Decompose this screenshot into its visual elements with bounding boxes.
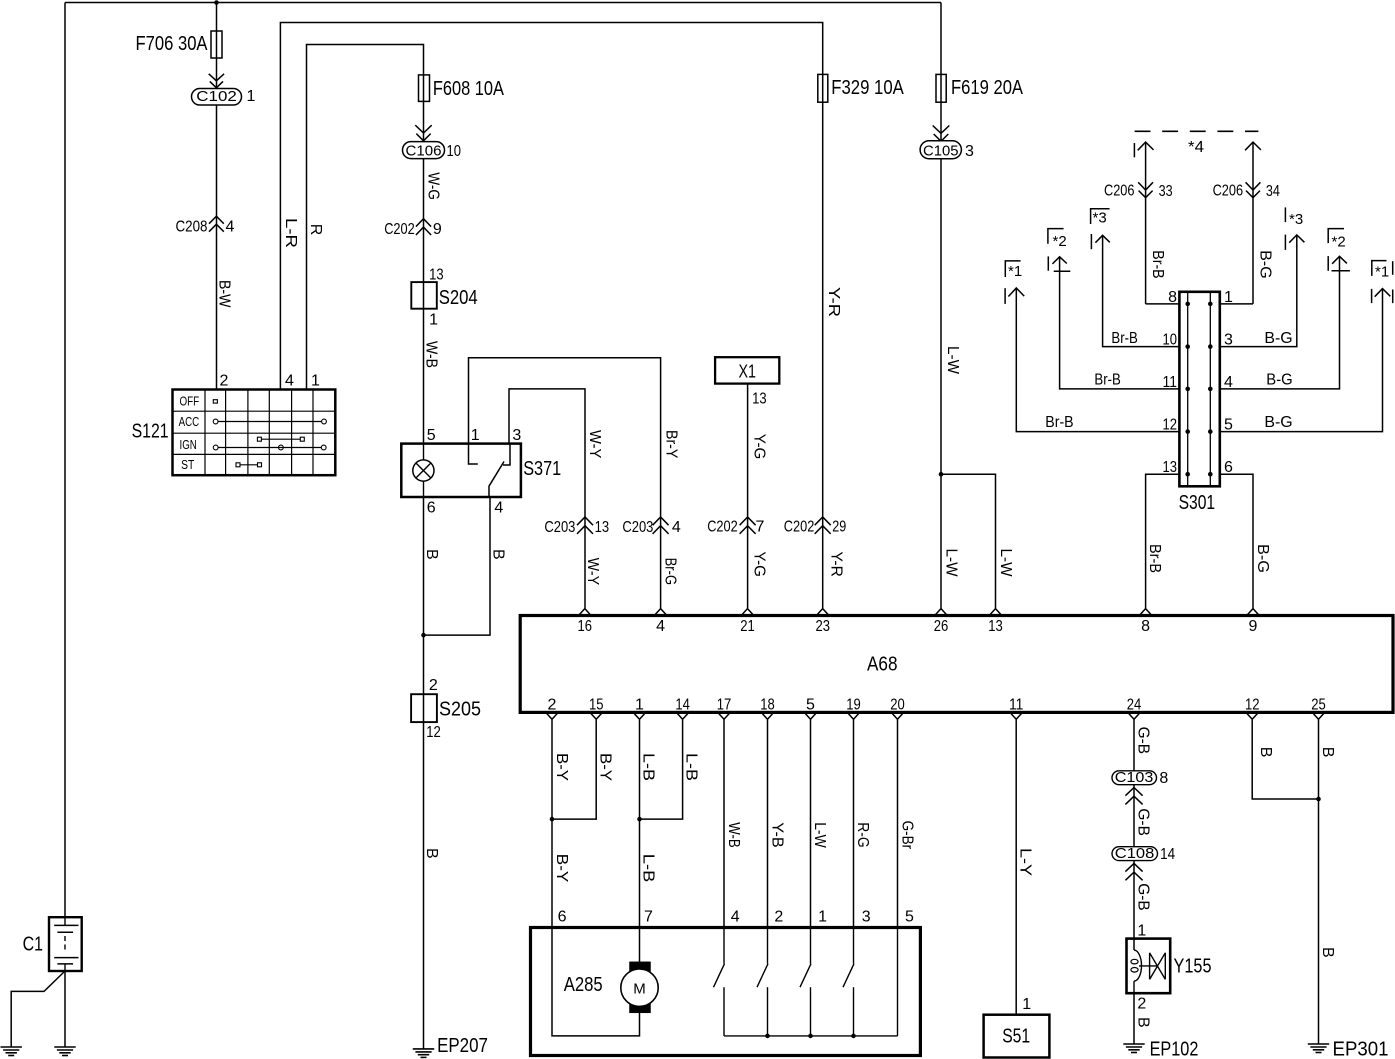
- svg-text:4: 4: [285, 373, 294, 390]
- svg-text:Br-G: Br-G: [661, 558, 678, 586]
- svg-text:C206: C206: [1104, 183, 1135, 200]
- svg-text:B-G: B-G: [1264, 414, 1292, 431]
- svg-text:13: 13: [1163, 459, 1178, 476]
- svg-text:A285: A285: [564, 974, 603, 996]
- svg-text:10: 10: [1163, 332, 1178, 349]
- svg-text:1: 1: [1224, 289, 1233, 306]
- svg-text:*2: *2: [1332, 234, 1346, 251]
- svg-text:B-G: B-G: [1266, 371, 1292, 388]
- svg-text:9: 9: [1249, 618, 1258, 635]
- svg-text:2: 2: [1137, 996, 1146, 1013]
- svg-text:4: 4: [1224, 374, 1233, 391]
- svg-text:1: 1: [311, 373, 320, 390]
- svg-text:G-B: G-B: [1135, 883, 1152, 911]
- svg-text:W-G: W-G: [425, 172, 442, 200]
- svg-text:*1: *1: [1008, 263, 1022, 280]
- svg-text:Br-B: Br-B: [1149, 250, 1166, 278]
- svg-text:B: B: [423, 848, 440, 859]
- svg-text:4: 4: [226, 219, 235, 236]
- svg-text:B-W: B-W: [216, 280, 233, 308]
- svg-text:11: 11: [1163, 374, 1178, 391]
- svg-text:C203: C203: [622, 519, 653, 536]
- svg-text:15: 15: [589, 697, 604, 714]
- svg-text:Br-B: Br-B: [1146, 544, 1163, 573]
- svg-text:L-W: L-W: [943, 549, 960, 578]
- svg-text:16: 16: [578, 618, 593, 635]
- svg-text:4: 4: [672, 519, 681, 536]
- svg-text:1: 1: [635, 697, 644, 714]
- svg-text:34: 34: [1266, 183, 1280, 200]
- svg-text:S121: S121: [132, 421, 169, 443]
- svg-text:B: B: [1257, 747, 1274, 758]
- svg-text:OFF: OFF: [180, 394, 200, 408]
- svg-text:Br-Y: Br-Y: [662, 430, 679, 459]
- svg-text:C208: C208: [176, 219, 208, 236]
- svg-text:26: 26: [934, 618, 949, 635]
- svg-text:F619 20A: F619 20A: [951, 77, 1024, 99]
- svg-text:13: 13: [595, 519, 610, 536]
- svg-text:EP207: EP207: [437, 1035, 488, 1057]
- svg-text:7: 7: [756, 519, 765, 536]
- svg-text:7: 7: [644, 909, 653, 926]
- svg-text:*3: *3: [1289, 211, 1303, 228]
- svg-text:X1: X1: [738, 361, 756, 381]
- svg-text:25: 25: [1311, 697, 1326, 714]
- svg-text:C102: C102: [196, 88, 237, 105]
- svg-text:B: B: [423, 549, 440, 560]
- svg-text:23: 23: [815, 618, 830, 635]
- svg-text:C203: C203: [544, 519, 575, 536]
- svg-text:L-R: L-R: [282, 218, 299, 248]
- svg-text:3: 3: [1224, 332, 1233, 349]
- svg-text:19: 19: [846, 697, 861, 714]
- svg-text:C103: C103: [1115, 769, 1154, 786]
- svg-text:S301: S301: [1179, 492, 1216, 514]
- svg-text:B-G: B-G: [1264, 330, 1292, 347]
- svg-text:B-G: B-G: [1257, 250, 1274, 278]
- svg-text:C202: C202: [784, 519, 815, 536]
- svg-text:17: 17: [717, 697, 732, 714]
- svg-text:8: 8: [1141, 618, 1150, 635]
- svg-text:L-W: L-W: [811, 822, 828, 848]
- svg-text:W-Y: W-Y: [584, 558, 601, 586]
- svg-text:B-Y: B-Y: [597, 753, 614, 781]
- svg-text:M: M: [633, 981, 646, 998]
- svg-text:14: 14: [675, 697, 690, 714]
- svg-text:IGN: IGN: [180, 438, 197, 452]
- svg-text:C206: C206: [1213, 183, 1244, 200]
- svg-text:*2: *2: [1053, 233, 1067, 250]
- svg-text:S204: S204: [439, 287, 478, 309]
- svg-text:C202: C202: [384, 221, 415, 238]
- svg-text:EP301: EP301: [1333, 1039, 1389, 1059]
- svg-text:ACC: ACC: [179, 415, 200, 429]
- svg-text:12: 12: [1245, 697, 1260, 714]
- svg-text:Y-G: Y-G: [751, 434, 768, 460]
- svg-text:*3: *3: [1093, 210, 1107, 227]
- svg-text:C105: C105: [923, 143, 959, 160]
- svg-text:G-B: G-B: [1135, 727, 1152, 755]
- svg-text:B: B: [489, 549, 506, 560]
- svg-text:R: R: [307, 224, 324, 236]
- svg-text:4: 4: [656, 618, 665, 635]
- svg-text:5: 5: [1224, 417, 1233, 434]
- svg-text:1: 1: [818, 909, 827, 926]
- svg-text:20: 20: [890, 697, 905, 714]
- svg-text:L-W: L-W: [997, 549, 1014, 578]
- svg-text:5: 5: [427, 427, 436, 444]
- svg-text:B: B: [1319, 947, 1336, 958]
- svg-text:2: 2: [774, 909, 783, 926]
- svg-text:33: 33: [1159, 183, 1173, 200]
- svg-text:1: 1: [247, 88, 256, 105]
- svg-text:R-G: R-G: [854, 822, 871, 848]
- svg-text:L-B: L-B: [640, 753, 657, 781]
- svg-text:5: 5: [905, 909, 914, 926]
- svg-text:Y-G: Y-G: [751, 551, 768, 577]
- svg-text:8: 8: [1168, 289, 1177, 306]
- svg-text:12: 12: [426, 724, 441, 741]
- svg-text:G-B: G-B: [1135, 808, 1152, 836]
- svg-text:L-B: L-B: [683, 753, 700, 781]
- svg-text:C108: C108: [1115, 845, 1155, 862]
- svg-text:B-G: B-G: [1254, 544, 1271, 573]
- svg-text:13: 13: [752, 390, 767, 407]
- svg-text:G-Br: G-Br: [898, 821, 915, 850]
- svg-text:B-Y: B-Y: [553, 854, 570, 883]
- svg-text:29: 29: [832, 519, 846, 536]
- svg-text:L-Y: L-Y: [1017, 848, 1034, 876]
- svg-text:A68: A68: [867, 654, 898, 676]
- svg-text:2: 2: [548, 697, 557, 714]
- svg-text:W-B: W-B: [422, 341, 439, 368]
- svg-text:10: 10: [447, 143, 462, 160]
- svg-text:8: 8: [1159, 770, 1168, 787]
- svg-text:13: 13: [988, 618, 1003, 635]
- svg-text:B: B: [1319, 747, 1336, 758]
- svg-text:F608 10A: F608 10A: [433, 78, 505, 100]
- svg-text:9: 9: [433, 221, 442, 238]
- svg-text:4: 4: [731, 909, 740, 926]
- svg-text:11: 11: [1009, 697, 1024, 714]
- svg-text:3: 3: [512, 427, 521, 444]
- svg-text:Br-B: Br-B: [1045, 414, 1073, 431]
- svg-text:Br-B: Br-B: [1111, 330, 1137, 347]
- svg-text:Y-R: Y-R: [825, 287, 842, 317]
- svg-text:F706 30A: F706 30A: [136, 33, 209, 55]
- svg-text:21: 21: [740, 618, 755, 635]
- svg-text:18: 18: [760, 697, 775, 714]
- svg-text:W-Y: W-Y: [586, 430, 603, 459]
- svg-text:13: 13: [429, 266, 444, 283]
- svg-text:12: 12: [1163, 417, 1178, 434]
- svg-text:3: 3: [965, 143, 974, 160]
- svg-text:Br-B: Br-B: [1094, 371, 1120, 388]
- svg-text:Y155: Y155: [1174, 955, 1212, 977]
- svg-text:C1: C1: [23, 934, 43, 956]
- svg-text:24: 24: [1127, 697, 1142, 714]
- svg-text:1: 1: [1022, 996, 1031, 1013]
- svg-text:B: B: [1135, 1017, 1152, 1028]
- svg-text:C202: C202: [707, 519, 738, 536]
- svg-text:C106: C106: [406, 142, 442, 159]
- svg-text:Y-R: Y-R: [827, 551, 844, 577]
- svg-text:3: 3: [862, 909, 871, 926]
- svg-text:1: 1: [471, 427, 480, 444]
- svg-text:5: 5: [806, 697, 815, 714]
- svg-text:6: 6: [1224, 459, 1233, 476]
- svg-text:Y-B: Y-B: [768, 822, 785, 848]
- svg-text:2: 2: [429, 677, 438, 694]
- svg-text:S205: S205: [439, 699, 481, 721]
- svg-text:F329 10A: F329 10A: [831, 77, 904, 99]
- svg-text:B-Y: B-Y: [553, 753, 570, 781]
- svg-text:1: 1: [429, 312, 438, 329]
- svg-text:EP102: EP102: [1150, 1039, 1199, 1059]
- svg-text:S51: S51: [1002, 1026, 1030, 1048]
- svg-text:L-W: L-W: [944, 346, 961, 375]
- svg-text:ST: ST: [181, 458, 194, 472]
- svg-text:14: 14: [1160, 846, 1175, 863]
- svg-text:L-B: L-B: [640, 854, 657, 883]
- svg-text:S371: S371: [523, 458, 561, 480]
- svg-text:1: 1: [1137, 923, 1146, 940]
- svg-text:W-B: W-B: [725, 822, 742, 848]
- svg-text:6: 6: [558, 909, 567, 926]
- svg-text:6: 6: [427, 500, 436, 517]
- svg-text:*1: *1: [1375, 264, 1389, 281]
- svg-text:4: 4: [494, 500, 503, 517]
- svg-text:2: 2: [220, 373, 229, 390]
- svg-text:*4: *4: [1188, 139, 1204, 156]
